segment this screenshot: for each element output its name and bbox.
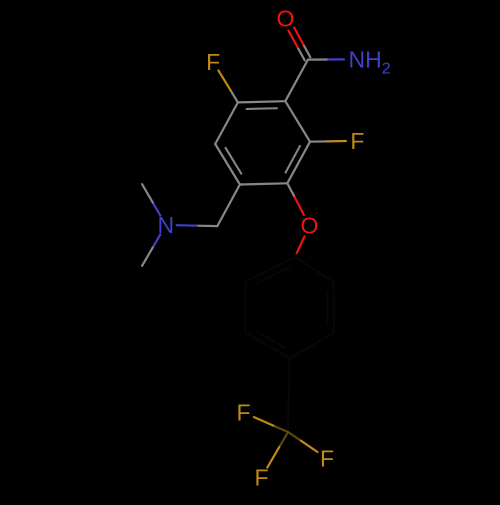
svg-text:N: N (157, 212, 174, 238)
benzene ring 2 (CF3-phenyl, nearly invisible dark) (246, 257, 334, 358)
svg-text:F: F (350, 128, 364, 154)
bond ring 2 to CF3 carbon (288, 358, 290, 432)
bond CH2 to amine N (177, 224, 218, 227)
CF3 bond to F left (254, 417, 288, 432)
bond C4 to benzylic CH2 (aminomethyl) (217, 185, 240, 227)
svg-text:F: F (320, 446, 334, 472)
svg-text:F: F (236, 400, 250, 426)
N-methyl bond (upper) (142, 184, 160, 215)
bond C1 to amide carbon (285, 60, 308, 102)
CF3 bond to F bottom (267, 432, 288, 468)
bond C2 to F (right) (310, 140, 346, 143)
svg-text:F: F (206, 49, 220, 75)
svg-text:O: O (277, 6, 295, 32)
svg-text:F: F (254, 465, 268, 491)
amide C-N bond (308, 58, 344, 60)
N-methyl bond (lower) (142, 235, 160, 266)
CF3 bond to F right (288, 432, 318, 452)
bond ether O to benzyl carbon (295, 236, 305, 257)
svg-text:O: O (301, 213, 319, 239)
bond C3 to ether O (287, 183, 304, 215)
amide C=O double bond (289, 28, 311, 61)
benzene ring 1 (benzamide ring) with aromatic inner lines (215, 101, 310, 184)
bond C6 to F (top-left) (218, 70, 238, 102)
